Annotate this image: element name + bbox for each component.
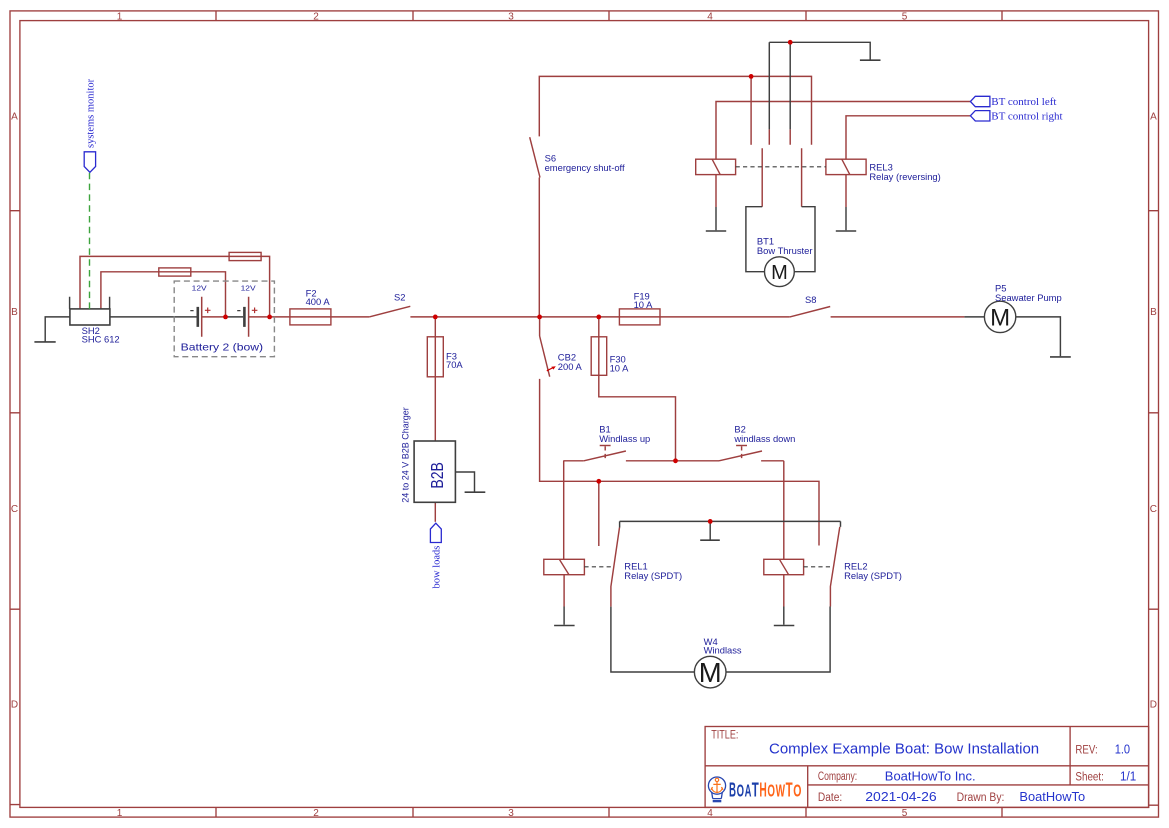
svg-text:Bow Thruster: Bow Thruster xyxy=(757,245,813,256)
svg-text:24 to 24 V B2B Charger: 24 to 24 V B2B Charger xyxy=(401,407,411,503)
svg-text:Windlass: Windlass xyxy=(704,644,742,655)
svg-text:5: 5 xyxy=(902,11,908,22)
svg-text:O: O xyxy=(793,782,801,802)
svg-text:3: 3 xyxy=(508,11,514,22)
svg-text:2021-04-26: 2021-04-26 xyxy=(865,789,936,804)
svg-text:1: 1 xyxy=(117,11,123,22)
svg-text:systems monitor: systems monitor xyxy=(86,78,97,148)
svg-text:bow loads: bow loads xyxy=(432,546,443,589)
svg-text:BoatHowTo Inc.: BoatHowTo Inc. xyxy=(885,768,976,783)
svg-text:emergency shut-off: emergency shut-off xyxy=(545,162,625,173)
svg-text:D: D xyxy=(1150,700,1157,711)
svg-text:2: 2 xyxy=(313,808,319,819)
svg-text:B: B xyxy=(729,778,736,801)
svg-text:A: A xyxy=(11,112,18,123)
svg-text:200 A: 200 A xyxy=(558,361,583,372)
svg-text:S2: S2 xyxy=(394,291,405,302)
svg-text:H: H xyxy=(759,779,766,802)
svg-text:O: O xyxy=(737,781,744,801)
svg-text:M: M xyxy=(771,262,788,284)
svg-text:TITLE:: TITLE: xyxy=(711,730,738,742)
svg-text:Battery 2 (bow): Battery 2 (bow) xyxy=(181,342,264,354)
svg-text:windlass down: windlass down xyxy=(733,433,795,444)
svg-text:BoatHowTo: BoatHowTo xyxy=(1019,789,1085,804)
svg-text:400 A: 400 A xyxy=(306,296,331,307)
svg-text:4: 4 xyxy=(707,11,713,22)
svg-text:4: 4 xyxy=(707,808,713,819)
svg-text:Relay (SPDT): Relay (SPDT) xyxy=(844,570,902,581)
svg-text:T: T xyxy=(752,778,759,801)
svg-text:10 A: 10 A xyxy=(634,299,654,310)
svg-text:5: 5 xyxy=(902,808,908,819)
svg-text:A: A xyxy=(745,781,752,801)
svg-text:2: 2 xyxy=(313,11,319,22)
svg-text:Relay (reversing): Relay (reversing) xyxy=(869,171,940,182)
svg-text:12V: 12V xyxy=(192,286,207,293)
svg-text:3: 3 xyxy=(508,808,514,819)
svg-text:REV:: REV: xyxy=(1075,744,1097,756)
svg-text:1/1: 1/1 xyxy=(1120,769,1136,783)
svg-text:C: C xyxy=(1150,504,1157,515)
svg-text:1: 1 xyxy=(117,808,123,819)
svg-text:Company:: Company: xyxy=(818,771,857,783)
svg-text:O: O xyxy=(767,781,775,801)
svg-text:S8: S8 xyxy=(805,294,816,305)
svg-text:SHC 612: SHC 612 xyxy=(82,333,120,344)
svg-text:B: B xyxy=(1150,307,1157,318)
svg-text:A: A xyxy=(1150,112,1157,123)
svg-text:Complex Example Boat: Bow Inst: Complex Example Boat: Bow Installation xyxy=(769,740,1039,757)
svg-text:Seawater Pump: Seawater Pump xyxy=(995,292,1062,303)
svg-text:T: T xyxy=(786,778,793,801)
svg-text:Date:: Date: xyxy=(818,792,842,804)
svg-text:Relay (SPDT): Relay (SPDT) xyxy=(624,570,682,581)
svg-text:C: C xyxy=(11,504,18,515)
svg-text:Drawn By:: Drawn By: xyxy=(957,792,1005,804)
svg-text:12V: 12V xyxy=(241,286,256,293)
svg-text:BT control right: BT control right xyxy=(991,110,1062,122)
svg-text:B: B xyxy=(11,307,18,318)
svg-text:Windlass up: Windlass up xyxy=(599,433,650,444)
svg-text:70A: 70A xyxy=(446,359,463,370)
svg-text:M: M xyxy=(990,305,1010,332)
svg-text:Sheet:: Sheet: xyxy=(1075,771,1104,783)
svg-text:BT control left: BT control left xyxy=(991,96,1056,108)
svg-text:M: M xyxy=(699,657,722,688)
svg-text:D: D xyxy=(11,700,18,711)
svg-text:W: W xyxy=(776,781,786,801)
svg-text:1.0: 1.0 xyxy=(1115,742,1130,756)
svg-text:10 A: 10 A xyxy=(610,363,630,374)
svg-text:B2B: B2B xyxy=(427,462,447,489)
